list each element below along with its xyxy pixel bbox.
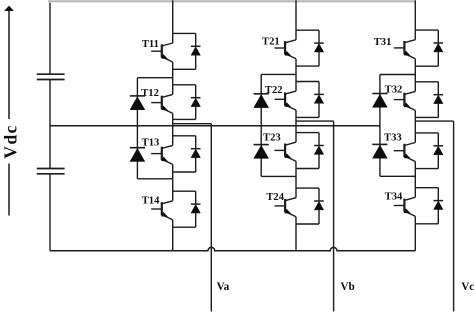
svg-text:Vdc: Vdc	[1, 124, 21, 159]
svg-text:T11: T11	[142, 39, 159, 50]
svg-text:T24: T24	[266, 192, 284, 203]
svg-text:T21: T21	[262, 37, 280, 48]
svg-text:T13: T13	[142, 137, 160, 148]
svg-text:T14: T14	[142, 195, 160, 206]
svg-text:Va: Va	[217, 281, 230, 293]
svg-text:T12: T12	[141, 88, 159, 99]
svg-text:Vb: Vb	[340, 281, 354, 293]
svg-text:T33: T33	[384, 133, 402, 144]
svg-text:T23: T23	[263, 133, 281, 144]
svg-text:T34: T34	[385, 191, 403, 202]
svg-text:T31: T31	[374, 37, 392, 48]
svg-text:Vc: Vc	[461, 281, 474, 293]
